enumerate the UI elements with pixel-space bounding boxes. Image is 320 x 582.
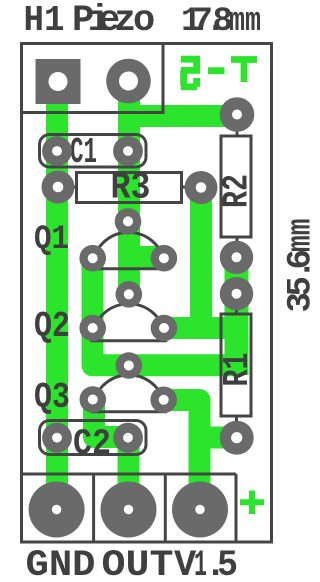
pad Q1 base top [115,208,142,235]
wire signal net B: round pad H1.2 down through C1.2, R3 body, Q1 top, to Q2 top [118,68,140,294]
label Piezo [72,0,155,42]
pad Q3 left [80,386,107,413]
wire net E: Q1 left pad down through Q2 left pad, elbow right under Q3 top pad into R1 body [93,255,239,365]
board outline [22,44,272,543]
pad Q2 left [79,315,106,342]
wire GND net: square pad H1.1 down through C1.1, R3.1, C2.1 to GND pad [46,70,68,509]
transistor Q3 outline [92,375,165,412]
svg-text:mm: mm [229,3,261,41]
resistor R2 leads [236,114,239,257]
label 35.6mm rotated [283,219,320,313]
pad OUT [101,482,157,538]
pad C1.1 [42,136,72,166]
pad R1.top [220,277,253,310]
pad R3.2 [185,171,218,204]
pad Q3 top [116,352,143,379]
resistor R1 leads [235,294,238,437]
wire net F: Q3 right pad right, down to V1.5 pad [164,400,200,509]
pad C2.2 [113,423,143,453]
pad H1.1 square [36,59,81,104]
svg-text:H1: H1 [24,0,65,41]
pad Q1 left [79,245,106,272]
resistor R2 body [221,136,251,237]
wire stub net F to R1 bottom pad [200,427,237,449]
transistor Q2 outline [92,304,166,341]
svg-text:GND: GND [26,545,96,582]
label 17.8mm [181,3,261,41]
plus polarity mark [240,491,264,515]
pad R2.top [220,97,255,132]
svg-text:5: 5 [217,545,238,582]
pad R1.bottom [220,421,254,455]
svg-text:o: o [133,0,155,42]
transistor Q1 outline [92,232,165,268]
svg-text:R3: R3 [111,167,151,210]
wire C2 right pad down to OUT pad [118,440,140,509]
pad GND [29,482,85,538]
pad C2.1 [42,423,72,453]
capacitor C1 outline [40,135,147,168]
pad Q2 top [116,281,143,308]
header H1 box [22,44,164,113]
pad V1.5 [172,482,228,538]
wire stub Q1 base to Q1 right pad [129,246,164,268]
pad H1.2 round [106,59,151,104]
wire net C horizontal: Q2 right pad to R1 body [164,317,239,339]
resistor R3 body [77,173,182,203]
pad Q1 right [151,245,178,272]
pad Q3 right [150,387,177,414]
svg-text:Q3: Q3 [34,377,70,418]
wire net D: R2 bottom pad through R1 top pad into R1 body [225,250,249,375]
resistor R1 body [221,314,251,416]
svg-text:C1: C1 [70,132,97,173]
svg-text:OUT: OUT [102,545,174,582]
capacitor C2 outline [40,421,147,455]
silkscreen text T-5 rotated 180 in copper green [181,59,257,87]
connector block dividers GND OUT V1.5 [22,474,237,541]
pad R2.bottom [220,241,253,274]
label V1.5 [174,545,238,582]
svg-text:Q2: Q2 [34,306,70,347]
wire net C vertical: R3.2 down [190,188,212,328]
resistor R3 leads [58,186,201,189]
pad C1.2 [113,136,143,166]
svg-text:C2: C2 [73,424,111,465]
svg-text:mm: mm [283,219,312,253]
wire Q3 left pad down to C2 right pad [94,396,120,437]
wire top horizontal: net B to R2 top pad [129,105,238,127]
svg-text:Q1: Q1 [34,221,69,259]
pad R3.1 [42,171,75,204]
svg-text:R1: R1 [217,353,258,387]
pad Q2 right [151,315,178,342]
svg-text:R2: R2 [217,174,258,208]
